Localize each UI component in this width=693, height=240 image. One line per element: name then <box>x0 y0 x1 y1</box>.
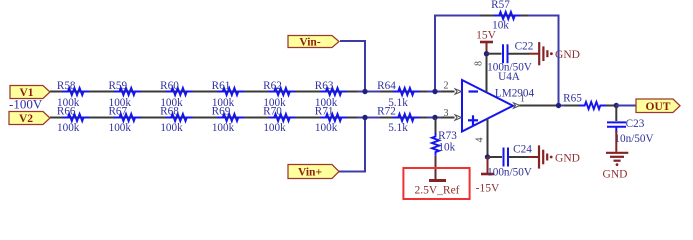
capacitor C24 <box>487 144 532 179</box>
resistor R71 <box>315 106 347 134</box>
svg-text:100k: 100k <box>315 122 338 134</box>
svg-text:15V: 15V <box>476 30 497 42</box>
wire C22 to GND <box>509 53 530 55</box>
svg-text:R70: R70 <box>263 106 282 118</box>
junction row1 Vin- <box>362 89 367 94</box>
ground GND (C23) <box>603 153 629 181</box>
resistor R73 <box>432 130 457 156</box>
svg-text:LM2904: LM2904 <box>495 88 535 100</box>
svg-text:8: 8 <box>474 61 485 66</box>
svg-text:R61: R61 <box>212 80 231 92</box>
wire Vin+ to row2 <box>339 118 365 172</box>
power -15V <box>476 157 500 195</box>
wire feedback vertical overlay <box>558 42 560 66</box>
op-amp U4A LM2904 <box>462 71 534 132</box>
svg-text:100n/50V: 100n/50V <box>487 167 532 179</box>
resistor R62 <box>263 80 295 109</box>
svg-text:C22: C22 <box>515 41 534 53</box>
power 2.5V_Ref <box>414 181 459 197</box>
wire navy stub row1 near feedback junction <box>427 91 441 93</box>
junction output/C23 <box>614 103 619 108</box>
svg-text:4: 4 <box>475 138 486 143</box>
resistor R67 <box>108 106 140 134</box>
pin 4 wire <box>487 119 489 158</box>
pin 1 arrow <box>514 103 521 108</box>
wire junction to C22 <box>487 53 502 55</box>
svg-text:R68: R68 <box>160 106 179 118</box>
capacitor C22 <box>487 41 533 74</box>
svg-text:2.5V_Ref: 2.5V_Ref <box>414 185 459 197</box>
svg-text:GND: GND <box>603 169 628 181</box>
wire row2 V2 chain <box>50 117 455 119</box>
pin 1 output wire <box>520 105 557 107</box>
svg-text:R63: R63 <box>315 80 334 92</box>
junction row2 R73 <box>432 115 437 120</box>
junction row1 feedback <box>432 89 437 94</box>
svg-text:1: 1 <box>520 94 525 105</box>
junction 15V/C22/pin8 <box>484 51 489 56</box>
svg-text:V2: V2 <box>19 113 33 125</box>
resistor R65 <box>563 93 606 110</box>
resistor R59 <box>108 80 140 109</box>
pin 3 arrow <box>455 115 462 120</box>
resistor R68 <box>160 106 192 134</box>
svg-text:Vin-: Vin- <box>299 37 320 49</box>
svg-text:C24: C24 <box>513 144 532 156</box>
svg-text:R67: R67 <box>108 106 127 118</box>
wire C23 to GND <box>615 131 617 152</box>
port V1 <box>10 86 50 100</box>
port OUT <box>636 99 680 113</box>
resistor R69 <box>212 106 244 134</box>
wire R73 to 2.5V_Ref <box>435 156 437 179</box>
svg-text:R65: R65 <box>563 93 582 105</box>
resistor R61 <box>212 80 244 109</box>
port V2 <box>9 112 50 126</box>
wire junction to C24 <box>488 156 503 158</box>
resistor R57 <box>491 0 520 32</box>
resistor R70 <box>263 106 295 134</box>
capacitor C23 <box>607 118 654 145</box>
svg-text:R71: R71 <box>315 106 334 118</box>
svg-text:-100V: -100V <box>9 97 43 112</box>
svg-text:R59: R59 <box>108 80 127 92</box>
wire navy stub row2 near Vin+ junction <box>357 117 380 119</box>
svg-text:OUT: OUT <box>646 101 671 113</box>
svg-text:10n/50V: 10n/50V <box>614 133 653 145</box>
wire Vin- to row1 <box>340 41 365 92</box>
svg-text:3: 3 <box>444 108 449 119</box>
svg-text:100k: 100k <box>160 122 183 134</box>
svg-text:C23: C23 <box>626 118 645 130</box>
svg-text:100n/50V: 100n/50V <box>487 62 532 74</box>
junction row2 Vin+ <box>362 115 367 120</box>
svg-text:R72: R72 <box>377 106 396 118</box>
port Vin- <box>288 36 339 49</box>
wire junction2 to OUT <box>616 105 637 107</box>
svg-text:100k: 100k <box>263 122 286 134</box>
svg-text:R58: R58 <box>57 80 76 92</box>
wire feedback loop <box>435 16 559 106</box>
svg-text:R57: R57 <box>491 0 510 11</box>
svg-text:GND: GND <box>555 153 580 165</box>
wire junction2 to C23 <box>615 106 617 122</box>
svg-text:R73: R73 <box>438 130 457 142</box>
resistor R72 <box>377 106 419 134</box>
resistor R64 <box>377 80 419 109</box>
ground GND (C24) <box>529 145 580 168</box>
wire navy stub row2 near R73 junction <box>427 117 441 119</box>
pin 8 wire <box>486 54 488 93</box>
wire junction1 to R65 <box>564 105 580 107</box>
wire navy stub row1 near Vin- junction <box>357 91 380 93</box>
svg-text:R69: R69 <box>212 106 231 118</box>
svg-text:100k: 100k <box>212 122 235 134</box>
resistor R58 <box>57 80 89 109</box>
wire R65 to junction2 <box>606 105 616 107</box>
power 15V <box>476 30 497 55</box>
svg-text:R64: R64 <box>377 80 396 92</box>
wire row2 junction to R73 <box>435 118 437 136</box>
resistor R63 <box>315 80 347 109</box>
pin 2 arrow <box>455 89 462 94</box>
svg-text:2: 2 <box>444 81 449 92</box>
port Vin+ <box>288 165 339 179</box>
svg-text:Vin+: Vin+ <box>298 167 322 179</box>
wire C24 to GND <box>509 156 529 158</box>
svg-text:-15V: -15V <box>476 183 500 195</box>
junction pin4/C24/-15V <box>485 154 490 159</box>
svg-text:R66: R66 <box>57 106 76 118</box>
svg-text:10k: 10k <box>438 142 455 154</box>
svg-text:R62: R62 <box>263 80 282 92</box>
wire output stub at junction1 <box>553 105 566 107</box>
svg-text:5.1k: 5.1k <box>388 122 408 134</box>
svg-text:R60: R60 <box>160 80 179 92</box>
resistor R60 <box>160 80 192 109</box>
wire row1 V1 chain <box>50 91 455 93</box>
svg-text:100k: 100k <box>109 122 132 134</box>
svg-text:100k: 100k <box>57 122 80 134</box>
junction output/feedback <box>556 103 561 108</box>
wire R57 leads dark <box>480 15 528 17</box>
resistor R66 <box>57 106 89 134</box>
highlight box 2.5V_Ref <box>403 168 469 199</box>
ground GND (C22) <box>529 42 580 65</box>
